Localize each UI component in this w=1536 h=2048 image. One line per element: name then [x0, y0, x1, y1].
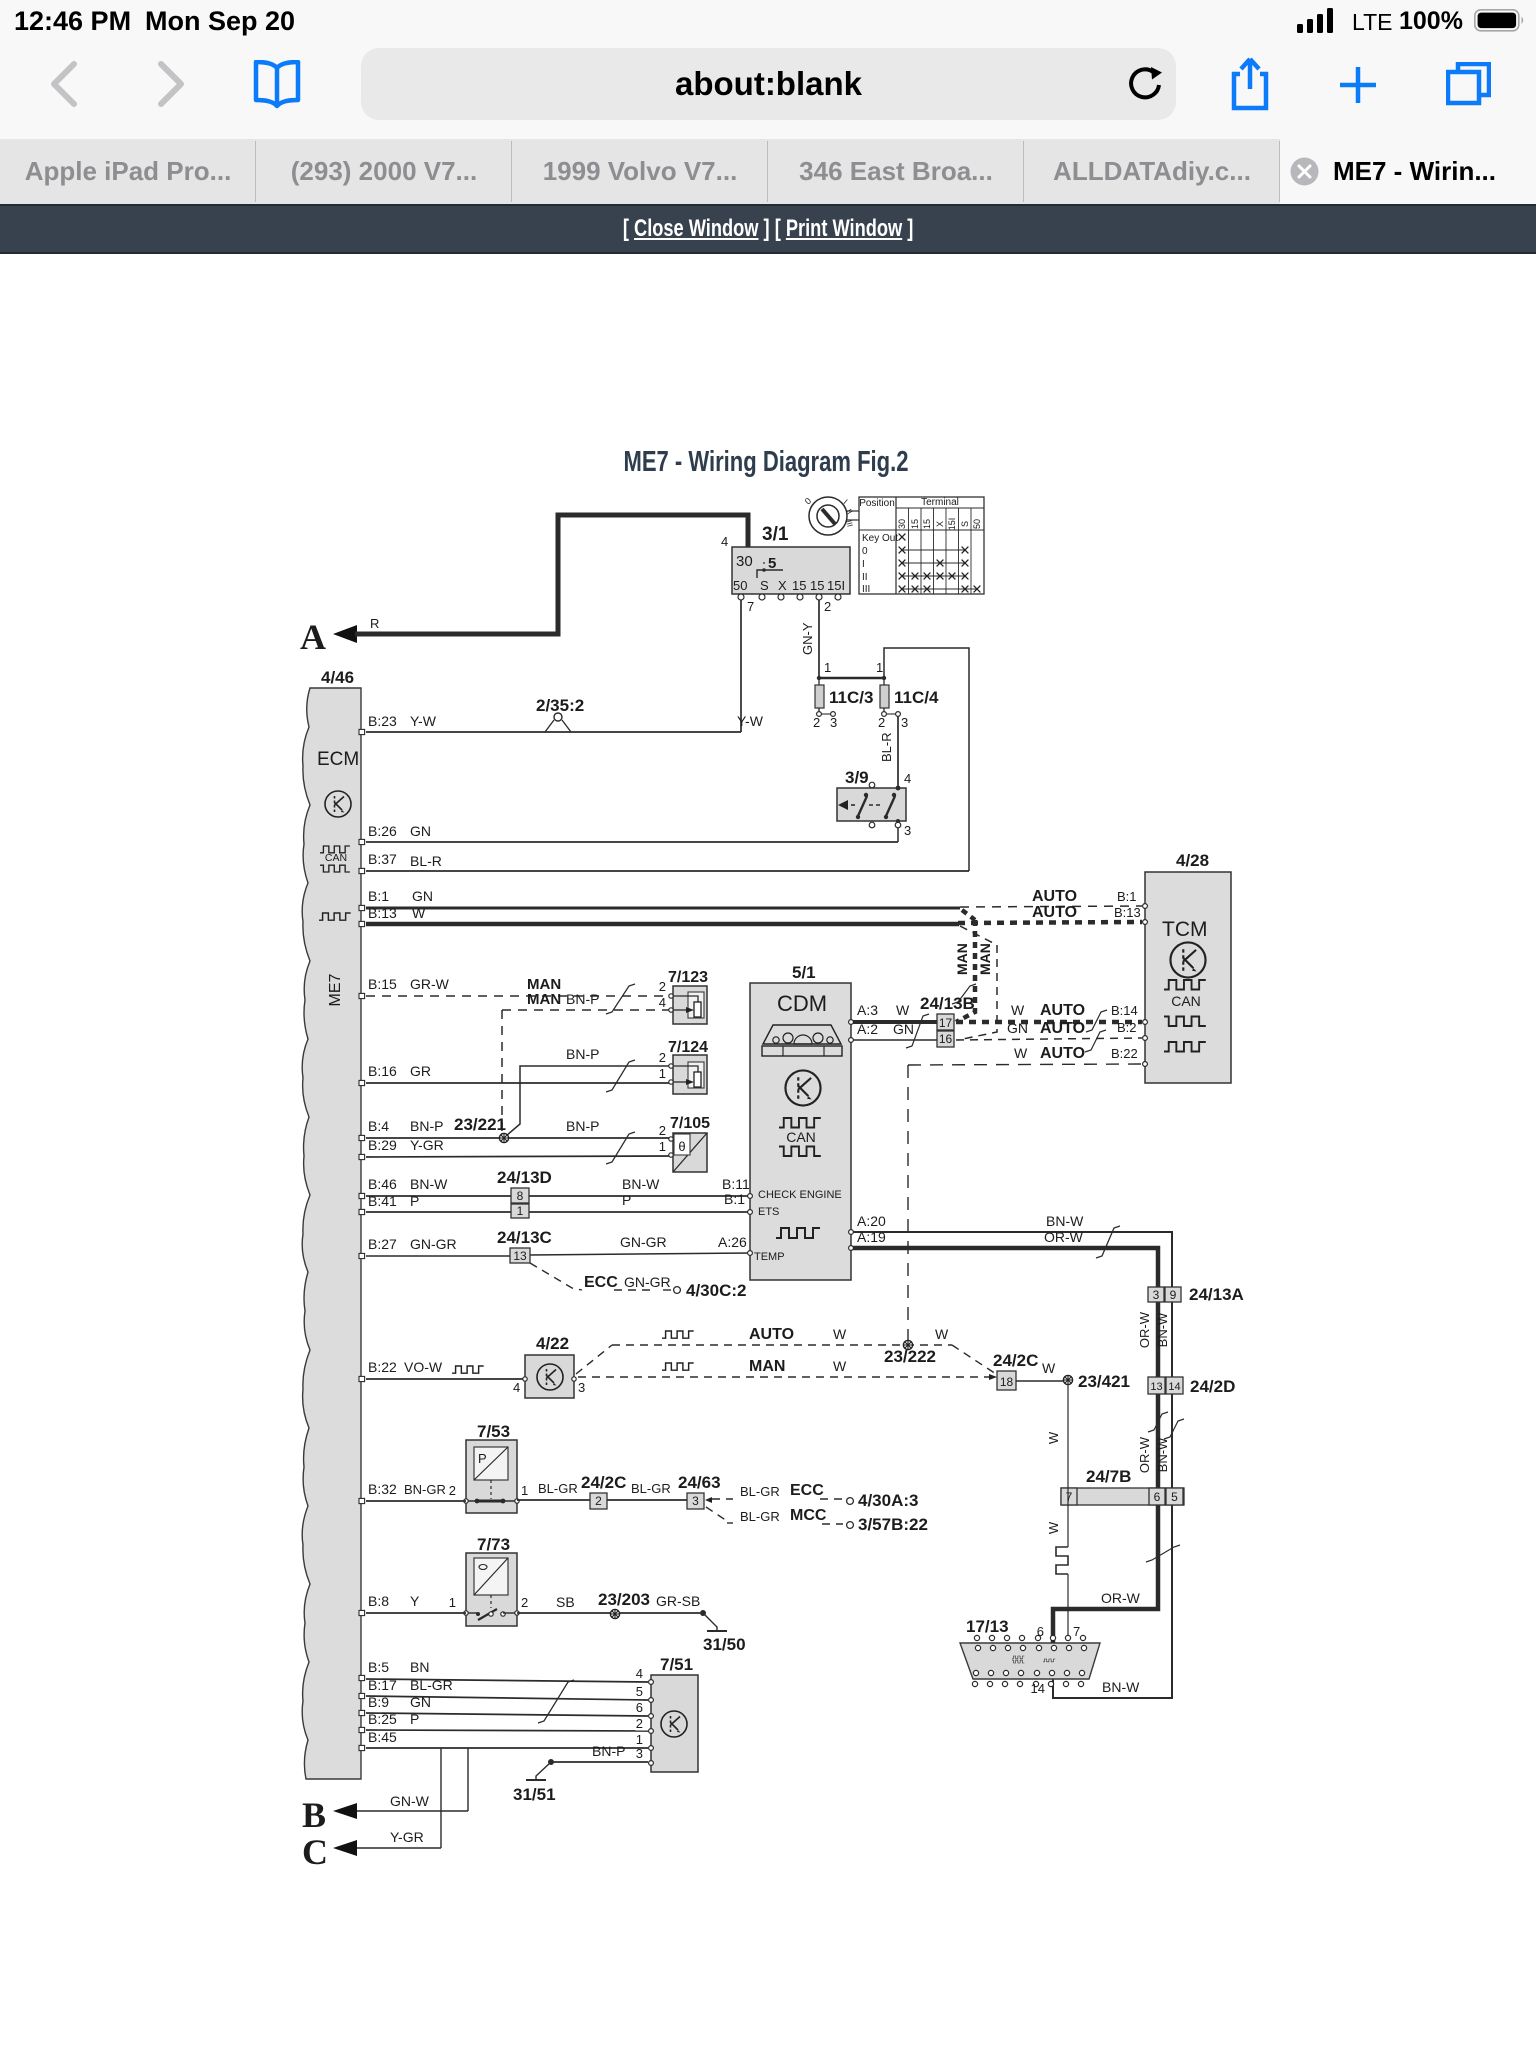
node B arrow — [302, 1795, 357, 1835]
svg-text:B:1: B:1 — [368, 888, 389, 904]
wire loop node1 to B:37 — [884, 648, 969, 871]
svg-text:15I: 15I — [827, 578, 845, 593]
svg-text:BN-W: BN-W — [410, 1176, 448, 1192]
svg-text:BL-GR: BL-GR — [740, 1484, 780, 1499]
svg-text:AUTO: AUTO — [1032, 888, 1077, 905]
svg-text:θ: θ — [678, 1139, 685, 1154]
svg-text:5/1: 5/1 — [792, 963, 816, 982]
svg-text:24/13B: 24/13B — [920, 994, 975, 1013]
svg-text:B:13: B:13 — [1114, 905, 1141, 920]
svg-text:I: I — [862, 559, 865, 570]
svg-text:SB: SB — [556, 1594, 575, 1610]
wire ECC GN-GR to 4/30C:2 — [530, 1263, 746, 1300]
svg-text:9: 9 — [1170, 1288, 1177, 1302]
svg-text:X: X — [778, 578, 787, 593]
svg-text:A: A — [300, 617, 326, 657]
svg-text:CAN: CAN — [786, 1129, 816, 1145]
svg-text:Y-W: Y-W — [410, 713, 437, 729]
node A arrow — [300, 617, 357, 657]
CDM pins — [748, 1020, 854, 1256]
wire GN AUTO to TCM B:2 — [956, 1020, 1142, 1040]
svg-text:CHECK ENGINE: CHECK ENGINE — [758, 1189, 842, 1201]
svg-text:3: 3 — [636, 1746, 643, 1761]
svg-text:3: 3 — [901, 715, 908, 730]
pressure switch 7/53 — [449, 1422, 528, 1513]
svg-text:2: 2 — [521, 1595, 528, 1610]
svg-text:OR-W: OR-W — [1137, 1311, 1152, 1348]
svg-text:B:22: B:22 — [1111, 1046, 1138, 1061]
svg-text:Terminal: Terminal — [921, 497, 959, 508]
svg-text:3: 3 — [1153, 1288, 1160, 1302]
svg-text:W: W — [833, 1358, 847, 1374]
svg-text:3/1: 3/1 — [762, 524, 789, 545]
wire MAN GN to 24/13B pin16 — [958, 926, 997, 1040]
svg-text:15I: 15I — [947, 518, 957, 531]
wire B:15 GR-W (MAN) — [366, 976, 671, 996]
svg-text:4: 4 — [904, 771, 911, 786]
svg-text:15: 15 — [910, 519, 920, 529]
svg-text:CAN: CAN — [1171, 993, 1201, 1009]
svg-text:3: 3 — [578, 1380, 585, 1395]
rotated wire labels above 24/2D — [1137, 1311, 1170, 1348]
svg-text:GN: GN — [412, 888, 433, 904]
svg-text:B:17: B:17 — [368, 1677, 397, 1693]
svg-text:24/63: 24/63 — [678, 1473, 721, 1492]
svg-text:B:32: B:32 — [368, 1481, 397, 1497]
svg-text:GN-GR: GN-GR — [624, 1274, 671, 1290]
svg-text:B:25: B:25 — [368, 1711, 397, 1727]
wire A:3 W to 24/13B — [853, 1002, 937, 1022]
svg-text:Y-GR: Y-GR — [410, 1137, 444, 1153]
CDM cluster icon — [762, 1025, 842, 1056]
svg-text:30: 30 — [897, 519, 907, 529]
svg-text:2: 2 — [824, 599, 831, 614]
harness slash B:14 wire — [1086, 1010, 1107, 1032]
ECM module 4/46 — [302, 668, 361, 1779]
wire from 3/1 pin 50/7 — [740, 600, 742, 732]
svg-text:A:19: A:19 — [857, 1229, 886, 1245]
svg-text:OR-W: OR-W — [1044, 1229, 1084, 1245]
svg-text:GR-SB: GR-SB — [656, 1593, 700, 1609]
wire A:20 BN-W — [853, 1213, 1172, 1698]
svg-text:MAN: MAN — [749, 1358, 785, 1375]
connector 24/63 pin3 — [678, 1473, 721, 1509]
svg-text:AUTO: AUTO — [1032, 904, 1077, 921]
svg-text:30: 30 — [736, 553, 753, 570]
connector 24/2C pin18 — [993, 1351, 1038, 1390]
svg-text:7: 7 — [1073, 1624, 1080, 1639]
svg-text:24/13D: 24/13D — [497, 1168, 552, 1187]
svg-text:BN-W: BN-W — [1155, 1437, 1170, 1472]
connector 24/13B — [920, 994, 975, 1047]
svg-text:1: 1 — [636, 1732, 643, 1747]
tabs icon — [1446, 62, 1491, 106]
svg-text:MAN: MAN — [954, 943, 970, 975]
injection valve 7/123 — [659, 969, 708, 1024]
svg-text:50: 50 — [972, 519, 982, 529]
wire B:45 to 7/51 pin1 — [366, 1729, 648, 1748]
svg-text:GN-GR: GN-GR — [410, 1236, 457, 1252]
svg-text:AUTO: AUTO — [1040, 1045, 1085, 1062]
svg-text:1: 1 — [517, 1204, 524, 1218]
svg-text:4/30A:3: 4/30A:3 — [858, 1491, 918, 1510]
svg-text:III: III — [862, 584, 870, 595]
svg-text:OR-W: OR-W — [1137, 1436, 1152, 1473]
TCM pins — [1143, 904, 1148, 1067]
svg-text:BL-R: BL-R — [410, 853, 442, 869]
splice 23/421 — [1063, 1372, 1130, 1391]
svg-text:3/57B:22: 3/57B:22 — [858, 1515, 928, 1534]
svg-text:2: 2 — [449, 1483, 456, 1498]
svg-text:BN-W: BN-W — [1155, 1312, 1170, 1347]
svg-text:24/2C: 24/2C — [993, 1351, 1038, 1370]
svg-text:W: W — [1046, 1431, 1061, 1444]
svg-text:CDM: CDM — [777, 991, 827, 1016]
svg-text:17/13: 17/13 — [966, 1617, 1009, 1636]
harness slash at 24/13B — [906, 1014, 929, 1048]
svg-text:1: 1 — [659, 1139, 666, 1154]
svg-text:Y-GR: Y-GR — [390, 1829, 424, 1845]
svg-text:B:1: B:1 — [724, 1191, 745, 1207]
svg-text:BL-GR: BL-GR — [538, 1481, 578, 1496]
svg-text:B:16: B:16 — [368, 1063, 397, 1079]
svg-text:13: 13 — [513, 1249, 527, 1263]
svg-text:A:2: A:2 — [857, 1021, 878, 1037]
svg-text:7/51: 7/51 — [660, 1655, 693, 1674]
svg-text:7: 7 — [747, 599, 754, 614]
svg-text:4/30C:2: 4/30C:2 — [686, 1281, 746, 1300]
ECM pin terminals — [359, 729, 365, 1750]
wire B:25 P — [366, 1711, 648, 1731]
svg-text:GN: GN — [410, 1694, 431, 1710]
wire BN-P branch to 7/124 pin2 — [506, 1046, 671, 1136]
svg-text:5: 5 — [1171, 1490, 1178, 1504]
svg-text:1: 1 — [449, 1595, 456, 1610]
wire W AUTO to TCM B:22 — [908, 1045, 1142, 1065]
svg-text:1: 1 — [824, 660, 831, 675]
svg-text:2: 2 — [636, 1716, 643, 1731]
svg-text:2: 2 — [659, 1050, 666, 1065]
svg-text:15: 15 — [922, 519, 932, 529]
svg-text:BN-W: BN-W — [622, 1176, 660, 1192]
connector 24/13D — [497, 1168, 552, 1218]
svg-text:2: 2 — [659, 979, 666, 994]
svg-text:2: 2 — [595, 1494, 602, 1508]
svg-text:B:11: B:11 — [722, 1176, 750, 1192]
svg-text:B:27: B:27 — [368, 1236, 397, 1252]
svg-text:3: 3 — [904, 823, 911, 838]
harness slash 7/105 wires — [606, 1132, 635, 1164]
svg-text:Key Out: Key Out — [862, 533, 898, 544]
svg-text:MCC: MCC — [790, 1507, 827, 1524]
svg-text:14: 14 — [1168, 1381, 1180, 1393]
svg-text:ETS: ETS — [758, 1206, 779, 1218]
svg-text:P: P — [410, 1193, 419, 1209]
svg-text:2: 2 — [878, 715, 885, 730]
svg-text:ME7 - Wiring Diagram Fig.2: ME7 - Wiring Diagram Fig.2 — [624, 446, 909, 478]
svg-text:OR-W: OR-W — [1101, 1590, 1141, 1606]
svg-text:BL-R: BL-R — [879, 732, 894, 762]
harness slash A19/A20 pair — [1096, 1226, 1120, 1258]
svg-text:GR: GR — [410, 1063, 431, 1079]
svg-text:B:4: B:4 — [368, 1118, 389, 1134]
wire W AUTO to TCM B:14 — [956, 1002, 1142, 1022]
svg-text:GN: GN — [1007, 1020, 1028, 1036]
harness slash 7/124 wires — [606, 1060, 635, 1092]
svg-text:0: 0 — [803, 496, 813, 507]
svg-text:15: 15 — [810, 578, 824, 593]
svg-text:3: 3 — [692, 1494, 699, 1508]
svg-text:W: W — [1011, 1002, 1025, 1018]
dashed vertical W to splice 23/222 — [907, 1065, 909, 1340]
svg-text:W: W — [833, 1326, 847, 1342]
svg-text:BN-W: BN-W — [1102, 1679, 1140, 1695]
svg-text:11C/4: 11C/4 — [894, 688, 939, 707]
svg-text:GN-GR: GN-GR — [620, 1234, 667, 1250]
svg-text:3: 3 — [830, 715, 837, 730]
svg-text:A:26: A:26 — [718, 1234, 747, 1250]
svg-text:BN: BN — [410, 1659, 429, 1675]
forward arrow — [155, 60, 189, 108]
svg-text:31/50: 31/50 — [703, 1635, 746, 1654]
svg-text:W: W — [896, 1002, 910, 1018]
svg-text:A:3: A:3 — [857, 1002, 878, 1018]
svg-text:ME7: ME7 — [327, 973, 344, 1006]
splice 23/222 — [884, 1340, 936, 1366]
svg-text:16: 16 — [939, 1032, 953, 1046]
svg-text:Y: Y — [410, 1593, 420, 1609]
svg-text:1: 1 — [659, 1066, 666, 1081]
svg-text:ECM: ECM — [317, 749, 359, 770]
ignition switch 3/1 — [721, 524, 850, 614]
svg-text:I: I — [842, 498, 849, 506]
svg-text:BN-P: BN-P — [592, 1743, 625, 1759]
svg-text:TCM: TCM — [1162, 918, 1208, 941]
svg-text:18: 18 — [1000, 1375, 1014, 1389]
svg-text:7/73: 7/73 — [477, 1535, 510, 1554]
svg-text:B:46: B:46 — [368, 1176, 397, 1192]
svg-text:15: 15 — [792, 578, 806, 593]
svg-text:24/2C: 24/2C — [581, 1473, 626, 1492]
svg-text:17: 17 — [939, 1016, 953, 1030]
svg-text:AUTO: AUTO — [749, 1326, 794, 1343]
wire B:26 GN — [366, 823, 898, 842]
svg-text:B: B — [302, 1795, 326, 1835]
wire BL-GR 24/2C to 24/63 — [607, 1481, 687, 1500]
harness slash 7/123 wires — [606, 984, 635, 1014]
speed signal unit 4/22 — [513, 1334, 585, 1398]
node 1 bus between fuses — [817, 660, 886, 680]
wire BL-GR MCC to 3/57B:22 — [706, 1507, 928, 1534]
svg-text:VO-W: VO-W — [404, 1359, 443, 1375]
wire SB / GR-SB to ground 31/50 — [517, 1590, 746, 1654]
svg-text:B:14: B:14 — [1111, 1003, 1138, 1018]
svg-text:6: 6 — [1154, 1490, 1161, 1504]
svg-text:1: 1 — [521, 1483, 528, 1498]
svg-text:Y-W: Y-W — [737, 713, 764, 729]
fuse 11C/4 — [878, 678, 939, 730]
wire MAN BN-P to 7/123 pin4 — [502, 991, 671, 1138]
svg-text:BN-P: BN-P — [566, 1046, 599, 1062]
svg-text:7/53: 7/53 — [477, 1422, 510, 1441]
wire MAN W to 24/13B pin17 — [954, 910, 975, 1022]
svg-text:24/13A: 24/13A — [1189, 1285, 1244, 1304]
svg-text:4: 4 — [636, 1666, 643, 1681]
temp sensor 7/105 — [659, 1115, 710, 1172]
connector 24/7B — [1061, 1467, 1184, 1505]
wire BL-GR ECC to 4/30A:3 — [712, 1482, 918, 1510]
wire B:27 GN-GR — [366, 1234, 751, 1256]
wire BL-GR 7/53 to 24/2C — [517, 1481, 590, 1500]
wire B:8 Y — [366, 1593, 466, 1613]
svg-text:B:9: B:9 — [368, 1694, 389, 1710]
wire B:29 Y-GR — [366, 1137, 671, 1157]
svg-text:2: 2 — [659, 1123, 666, 1138]
svg-text:3/9: 3/9 — [845, 768, 869, 787]
svg-text:ECC: ECC — [584, 1274, 618, 1291]
connector 24/13A — [1148, 1285, 1244, 1304]
ignition coil unit 7/51 — [649, 1655, 698, 1772]
svg-text:GR-W: GR-W — [410, 976, 450, 992]
svg-text:4: 4 — [659, 995, 666, 1010]
connector 24/13C — [497, 1228, 552, 1263]
wire 3/9 pin3 to B:26 — [897, 828, 899, 842]
rotated wire labels above 24/7B — [1137, 1436, 1170, 1473]
plus icon — [1339, 66, 1377, 104]
svg-text:S: S — [760, 578, 769, 593]
harness slash bottom wires — [538, 1680, 574, 1723]
svg-text:4: 4 — [513, 1380, 520, 1395]
svg-text:B:2: B:2 — [1117, 1020, 1137, 1035]
wire A:19 OR-W — [853, 1229, 1158, 1643]
wire R (battery feed to ignition switch) — [355, 515, 748, 634]
wire AUTO to TCM B:1 — [960, 888, 1142, 907]
svg-text:BL-GR: BL-GR — [740, 1509, 780, 1524]
svg-text:0: 0 — [862, 546, 868, 557]
svg-text:13: 13 — [1150, 1381, 1162, 1393]
svg-text:II: II — [862, 572, 868, 583]
svg-text:BN-P: BN-P — [566, 991, 599, 1007]
wire B:1 GN (CAN) — [366, 888, 960, 908]
svg-text:GN-Y: GN-Y — [800, 622, 815, 655]
svg-text:8: 8 — [517, 1189, 524, 1203]
svg-text:23/222: 23/222 — [884, 1347, 936, 1366]
svg-text:14: 14 — [1031, 1681, 1045, 1696]
svg-text:B:37: B:37 — [368, 851, 397, 867]
share icon — [1231, 55, 1269, 111]
svg-text:GN: GN — [893, 1021, 914, 1037]
TCM module 4/28 — [1145, 851, 1231, 1083]
svg-text:4: 4 — [721, 534, 728, 549]
wire A:2 GN to 24/13B — [853, 1021, 937, 1040]
svg-text:B:13: B:13 — [368, 905, 397, 921]
wire AUTO to TCM B:13 — [958, 904, 1142, 923]
svg-text:B:8: B:8 — [368, 1593, 389, 1609]
svg-text:7/124: 7/124 — [668, 1039, 708, 1056]
svg-text:Position: Position — [859, 498, 895, 509]
svg-text:S: S — [960, 521, 970, 527]
CDM labels — [754, 1189, 842, 1263]
wire B:37 BL-R — [366, 851, 969, 871]
svg-text:1: 1 — [876, 660, 883, 675]
svg-text:TEMP: TEMP — [754, 1251, 785, 1263]
node C arrow — [302, 1832, 357, 1872]
wire GN-Y from 3/1 pin 15/2 — [800, 600, 819, 678]
svg-text:C: C — [302, 1832, 328, 1872]
svg-text:BN-W: BN-W — [1046, 1213, 1084, 1229]
svg-text:7/123: 7/123 — [668, 969, 708, 986]
combined display module CDM 5/1 — [750, 963, 851, 1280]
injection valve 7/124 — [659, 1039, 708, 1094]
svg-text:MAN: MAN — [527, 991, 561, 1008]
fuel pump relay 7/73 — [449, 1535, 528, 1626]
wire B:5 BN — [366, 1659, 648, 1682]
svg-text:P: P — [410, 1711, 419, 1727]
connector 24/2D — [1148, 1377, 1235, 1396]
svg-text:24/2D: 24/2D — [1190, 1377, 1235, 1396]
svg-text:GN: GN — [410, 823, 431, 839]
wire GN-W to node B — [356, 1748, 468, 1811]
harness slash below 24/7B — [1146, 1545, 1180, 1562]
CDM CAN symbol — [779, 1118, 821, 1156]
back arrow — [46, 60, 80, 108]
ignition switch position/terminal table — [859, 497, 984, 595]
wire W down to 17/13 pin7 — [1046, 1384, 1068, 1638]
svg-text:MAN: MAN — [977, 943, 993, 975]
svg-text:BN-GR: BN-GR — [404, 1482, 446, 1497]
svg-text:AUTO: AUTO — [1040, 1002, 1085, 1019]
wire B:32 BN-GR — [366, 1481, 466, 1501]
svg-text:B:26: B:26 — [368, 823, 397, 839]
wire B:4 BN-P — [366, 1118, 671, 1138]
svg-text:W: W — [1042, 1360, 1056, 1376]
connector 17/13 — [960, 1617, 1100, 1696]
svg-text:B:1: B:1 — [1117, 889, 1137, 904]
svg-text:A:20: A:20 — [857, 1213, 886, 1229]
relay 3/9 — [837, 768, 911, 838]
svg-text:B:29: B:29 — [368, 1137, 397, 1153]
svg-text:4/28: 4/28 — [1176, 851, 1209, 870]
bookmarks book icon — [249, 60, 305, 110]
svg-text:6: 6 — [1037, 1624, 1044, 1639]
svg-text:7/105: 7/105 — [670, 1115, 710, 1132]
svg-text:B:23: B:23 — [368, 713, 397, 729]
wire B:46 BN-W — [366, 1176, 751, 1196]
splice 23/221 — [454, 1115, 509, 1143]
svg-text:AUTO: AUTO — [1040, 1020, 1085, 1037]
wire B:16 GR — [366, 1063, 671, 1083]
wire W to splice 23/421 — [1016, 1360, 1063, 1381]
svg-text:W: W — [1046, 1521, 1061, 1534]
splice 2/35:2 — [536, 696, 584, 732]
svg-text:GN-W: GN-W — [390, 1793, 430, 1809]
svg-text:W: W — [412, 905, 426, 921]
wire B:22 VO-W — [366, 1359, 525, 1379]
svg-text:B:45: B:45 — [368, 1729, 397, 1745]
svg-text:P: P — [478, 1451, 487, 1466]
svg-text:5: 5 — [636, 1684, 643, 1699]
svg-text:23/203: 23/203 — [598, 1590, 650, 1609]
svg-text:P: P — [622, 1192, 631, 1208]
wire B:13 W (CAN) — [366, 905, 959, 924]
svg-text:4/46: 4/46 — [321, 668, 354, 687]
harness slash B:2 wire — [1085, 1030, 1106, 1052]
svg-text:CAN: CAN — [325, 852, 347, 864]
svg-text:6: 6 — [636, 1700, 643, 1715]
wire B:9 GN — [366, 1694, 648, 1716]
svg-text:B:5: B:5 — [368, 1659, 389, 1675]
wire BL-R fuse 11C/4 pin3 to relay 3/9 — [879, 716, 898, 786]
